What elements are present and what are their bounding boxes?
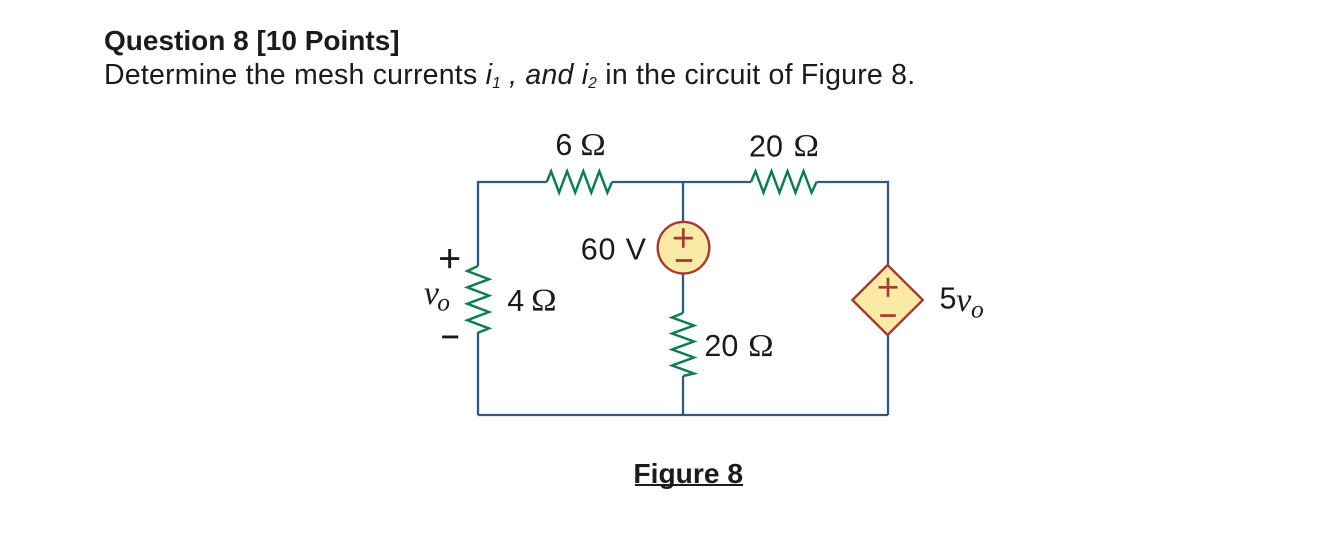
svg-text:5: 5 — [940, 282, 957, 316]
svg-text:4: 4 — [507, 284, 524, 318]
svg-text:Ω: Ω — [531, 283, 557, 318]
plus sign inside source — [674, 228, 693, 247]
wire: middle vertical between source and 20ohm — [682, 273, 684, 313]
svg-text:o: o — [437, 288, 450, 317]
caption underline — [635, 484, 744, 486]
wire: bottom rail — [478, 414, 888, 416]
plus sign inside diamond — [879, 278, 898, 297]
minus sign inside source — [676, 259, 692, 262]
minus sign inside diamond — [880, 314, 896, 317]
figure caption — [633, 459, 743, 487]
dependent source 5vo (diamond) — [852, 265, 922, 335]
svg-text:v: v — [956, 282, 972, 319]
svg-text:Ω: Ω — [580, 127, 606, 162]
svg-text:Ω: Ω — [794, 128, 820, 163]
question title — [104, 27, 400, 55]
voltage source 60V (circle) — [658, 222, 710, 274]
plus label of vo — [440, 249, 459, 268]
svg-text:20: 20 — [749, 129, 783, 163]
wire: top right segment — [817, 182, 889, 265]
wire: top middle segment (6ohm to 20ohm) — [612, 181, 751, 183]
minus label of vo — [442, 335, 458, 338]
svg-text:20: 20 — [704, 329, 738, 363]
wire: right vertical lower — [887, 335, 889, 415]
question body — [104, 61, 915, 98]
wire: left vertical lower segment — [477, 332, 479, 415]
resistor 4ohm (left, vertical zigzag) — [467, 266, 489, 333]
svg-text:6: 6 — [555, 128, 572, 162]
wire: middle vertical upper (node to 60V source) — [682, 182, 684, 222]
svg-text:Ω: Ω — [748, 328, 774, 363]
svg-text:o: o — [971, 295, 984, 324]
svg-text:60 V: 60 V — [581, 233, 647, 267]
resistor 6ohm (top left, horizontal zigzag) — [547, 171, 612, 192]
resistor 20ohm (top right, horizontal zigzag) — [751, 171, 817, 192]
resistor 20ohm (middle, vertical zigzag) — [672, 313, 694, 376]
wire: middle vertical lower — [682, 376, 684, 415]
wire: left vertical top + top-left rail — [478, 182, 547, 266]
